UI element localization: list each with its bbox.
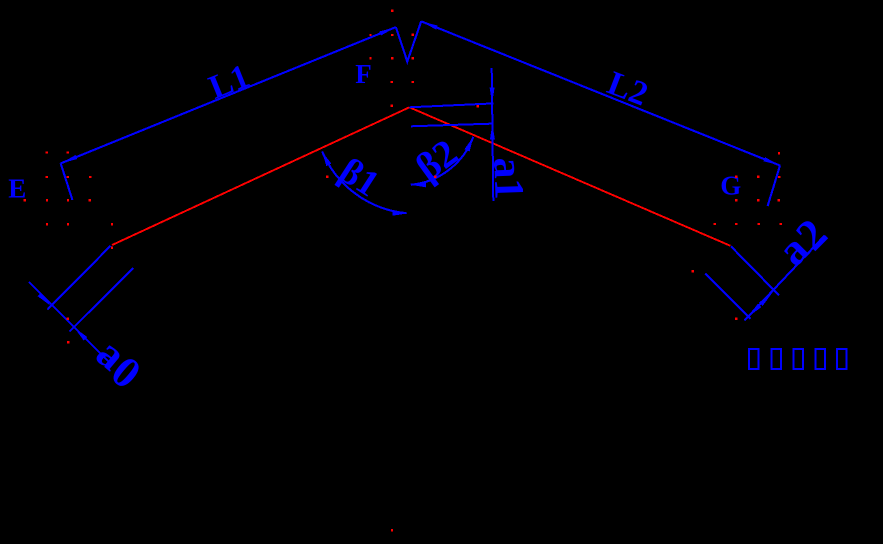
node grid dots near apex F bbox=[369, 10, 479, 108]
node grid dot bottom center bbox=[391, 529, 393, 531]
svg-text:L1: L1 bbox=[204, 58, 255, 107]
wire a2 dimension line bbox=[745, 236, 825, 321]
wire left extension B bbox=[70, 268, 134, 332]
node G tick mark bbox=[768, 166, 780, 207]
node E tick mark bbox=[61, 163, 73, 200]
node grid dots near beta labels bbox=[326, 175, 436, 177]
arrow a1 upper pointing down bbox=[490, 88, 495, 104]
node grid dots near G bbox=[692, 152, 782, 320]
svg-text:G: G bbox=[720, 171, 741, 201]
wire right extension A bbox=[731, 246, 779, 295]
wire a1 dimension vertical line bbox=[492, 68, 494, 201]
wire L2 dimension line bbox=[421, 21, 780, 165]
node grid dots lower left bbox=[67, 318, 70, 344]
wire beta2 angle arc bbox=[411, 137, 474, 185]
arrow a2 lower pointing down-left bbox=[747, 304, 762, 319]
arrow beta1 arc end bbox=[393, 210, 408, 216]
svg-text:a1: a1 bbox=[484, 157, 531, 201]
label placeholder boxes (missing CJK glyphs) bbox=[749, 349, 847, 369]
wire L1 dimension line bbox=[61, 27, 396, 163]
node grid dots near E bbox=[24, 151, 114, 248]
wire a1 extension upper from F bbox=[409, 103, 493, 107]
arrow beta1 arc start bbox=[320, 150, 332, 166]
svg-text:β1: β1 bbox=[332, 150, 386, 205]
wire left extension A bbox=[48, 246, 111, 310]
arrow L2 upper tip bbox=[420, 19, 437, 29]
wire V notch break symbol bbox=[396, 21, 421, 61]
svg-text:F: F bbox=[355, 59, 372, 89]
wire a0 dimension line bbox=[29, 282, 110, 363]
wire red ray F to left bbox=[112, 107, 409, 245]
wire a1 extension lower bbox=[411, 124, 494, 127]
svg-text:β2: β2 bbox=[408, 131, 466, 189]
arrow L2 lower tip at G bbox=[763, 157, 780, 167]
wire right extension B bbox=[705, 273, 750, 318]
svg-text:E: E bbox=[8, 174, 26, 204]
arrow a0 lower bbox=[72, 326, 87, 341]
arrow a2 upper pointing up-right bbox=[759, 291, 774, 306]
wire beta1 angle arc bbox=[322, 152, 406, 214]
arrow L1 upper tip bbox=[379, 25, 396, 35]
arrow a0 upper bbox=[38, 293, 53, 308]
arrow a1 lower pointing up bbox=[490, 124, 495, 140]
arrow beta2 arc end bbox=[464, 136, 475, 152]
wire red ray F to right bbox=[409, 107, 730, 246]
arrow L1 lower tip at E bbox=[60, 155, 77, 165]
svg-text:L2: L2 bbox=[602, 65, 652, 114]
arrow beta2 arc start bbox=[411, 182, 426, 188]
